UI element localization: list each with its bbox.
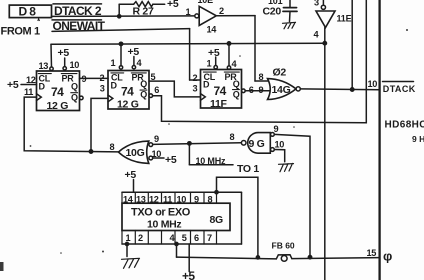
svg-text:+5: +5	[128, 46, 140, 58]
svg-text:11E: 11E	[337, 14, 352, 24]
svg-text:74: 74	[121, 85, 134, 99]
svg-text:74: 74	[51, 85, 64, 99]
svg-text:9 G: 9 G	[249, 138, 265, 150]
svg-text:FROM 1: FROM 1	[1, 26, 40, 38]
svg-text:+5: +5	[182, 269, 195, 280]
svg-text:11: 11	[163, 194, 172, 204]
svg-text:6: 6	[249, 85, 254, 95]
svg-text:8: 8	[208, 194, 213, 204]
svg-text:10 MHz: 10 MHz	[196, 156, 227, 166]
svg-text:14: 14	[123, 194, 134, 204]
svg-text:1: 1	[186, 7, 191, 17]
svg-text:1: 1	[126, 233, 131, 243]
svg-text:13: 13	[39, 61, 49, 71]
svg-text:10: 10	[275, 139, 285, 149]
svg-text:DTACK: DTACK	[383, 84, 416, 94]
svg-text:+5: +5	[125, 169, 137, 181]
svg-text:10: 10	[368, 79, 378, 89]
svg-text:φ: φ	[383, 249, 392, 264]
svg-text:10G: 10G	[126, 147, 145, 159]
svg-text:10: 10	[70, 60, 80, 70]
svg-text:+5: +5	[7, 79, 19, 91]
svg-text:12: 12	[26, 75, 36, 85]
svg-text:6: 6	[154, 85, 159, 95]
svg-text:3: 3	[193, 83, 198, 93]
svg-text:5: 5	[151, 72, 156, 82]
svg-text:TXO or EXO: TXO or EXO	[131, 206, 191, 218]
svg-text:9: 9	[82, 74, 87, 84]
svg-text:74: 74	[214, 84, 227, 98]
svg-text:5: 5	[182, 233, 187, 243]
svg-text:8: 8	[230, 132, 235, 142]
svg-text:13: 13	[136, 194, 146, 204]
svg-text:14: 14	[207, 25, 218, 35]
svg-text:D 8: D 8	[19, 4, 37, 18]
svg-text:2: 2	[193, 73, 198, 83]
svg-text:Q: Q	[140, 90, 147, 100]
svg-text:+5: +5	[58, 47, 70, 59]
svg-text:8: 8	[259, 72, 264, 82]
svg-text:Q: Q	[140, 79, 147, 89]
svg-text:10: 10	[177, 194, 187, 204]
svg-text:3: 3	[100, 83, 105, 93]
svg-text:Ø2: Ø2	[273, 66, 287, 78]
svg-text:14G: 14G	[272, 84, 291, 96]
svg-text:Q: Q	[71, 92, 78, 102]
svg-text:9 H: 9 H	[412, 134, 424, 144]
svg-text:2: 2	[100, 73, 105, 83]
svg-text:D: D	[39, 81, 46, 91]
svg-text:12 G: 12 G	[117, 99, 139, 111]
svg-text:9: 9	[154, 134, 159, 144]
svg-text:2: 2	[138, 233, 143, 243]
svg-text:101: 101	[268, 0, 283, 6]
svg-text:FB 60: FB 60	[272, 240, 295, 250]
svg-text:ONEWAIT: ONEWAIT	[53, 19, 106, 33]
svg-text:D: D	[203, 80, 210, 90]
svg-text:7: 7	[207, 233, 212, 243]
svg-text:Q: Q	[233, 79, 240, 89]
svg-text:6: 6	[194, 233, 199, 243]
svg-text:12: 12	[149, 194, 159, 204]
svg-text:15: 15	[367, 248, 377, 258]
svg-text:3: 3	[314, 0, 319, 8]
svg-text:TO 1: TO 1	[237, 163, 259, 175]
svg-text:9: 9	[194, 194, 199, 204]
svg-text:C20: C20	[263, 5, 282, 17]
svg-text:8: 8	[110, 142, 115, 152]
svg-text:R 27: R 27	[133, 5, 154, 17]
svg-text:DTACK 2: DTACK 2	[54, 4, 102, 18]
svg-text:12 G: 12 G	[47, 100, 69, 112]
svg-text:HD68HC: HD68HC	[385, 120, 424, 131]
svg-text:Q: Q	[71, 82, 78, 92]
svg-text:+5: +5	[208, 47, 220, 59]
svg-text:+5: +5	[165, 154, 177, 166]
svg-text:D: D	[111, 80, 118, 90]
svg-text:10E: 10E	[198, 0, 214, 5]
svg-text:Q: Q	[233, 90, 240, 100]
svg-text:+5: +5	[167, 0, 179, 10]
svg-text:1: 1	[111, 58, 116, 68]
svg-text:2: 2	[219, 6, 224, 16]
svg-text:11F: 11F	[210, 98, 227, 110]
svg-text:9: 9	[259, 85, 264, 95]
svg-text:10 MHz: 10 MHz	[147, 218, 181, 230]
svg-text:11: 11	[24, 87, 33, 97]
svg-text:1: 1	[207, 58, 212, 68]
svg-text:9: 9	[274, 124, 279, 134]
svg-text:10: 10	[152, 149, 162, 159]
svg-text:8G: 8G	[210, 214, 224, 226]
